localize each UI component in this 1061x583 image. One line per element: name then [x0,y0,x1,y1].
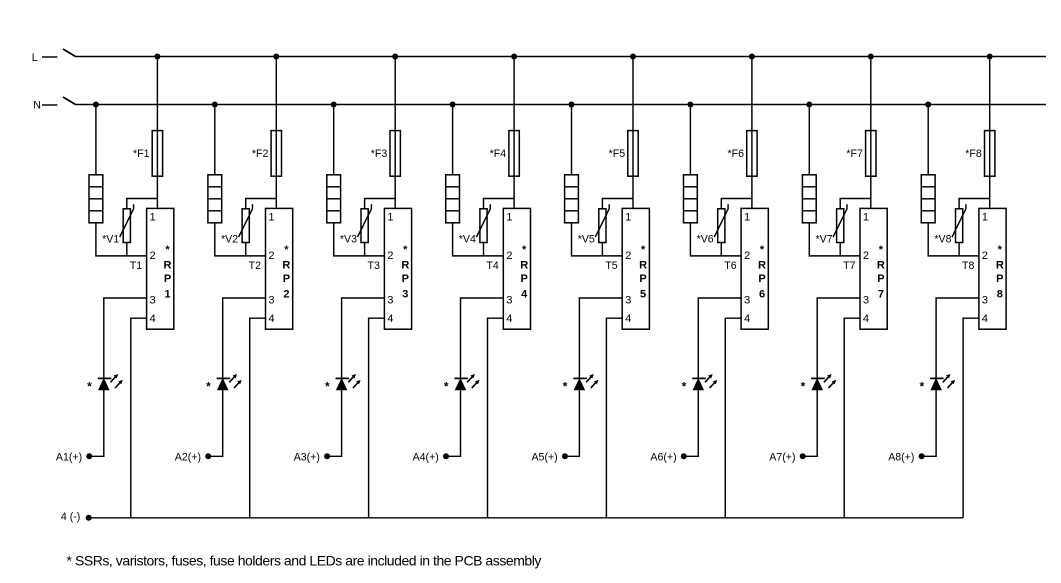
svg-text:*V5: *V5 [578,233,595,245]
fuse F7 [866,131,876,177]
fuse F6 [747,131,757,177]
svg-text:2: 2 [268,250,274,262]
svg-text:8: 8 [997,289,1003,301]
wire N to fuse holder T6 [689,105,691,175]
LED D2 light arrows [229,374,241,388]
svg-text:*F7: *F7 [846,148,863,160]
svg-text:P: P [996,273,1003,285]
svg-text:T6: T6 [724,260,736,272]
svg-text:*: * [444,380,449,394]
LED D1 light arrows [111,374,123,388]
svg-text:1: 1 [387,211,393,223]
wire LED D7 to terminal A7(+) [803,390,818,457]
junction N-T6 node [687,102,693,108]
svg-text:2: 2 [150,250,156,262]
wire holder T2 to SSR RP2 pin 2 [215,223,266,256]
svg-text:*: * [879,244,884,256]
svg-text:*F1: *F1 [133,148,150,160]
fuse F2 [271,131,281,177]
svg-text:*: * [165,244,170,256]
label *RP6 (vertical) [758,244,766,300]
wire varistor V1 top to fuse output [127,199,158,209]
wire varistor V4 bottom to pin 2 net [483,243,485,256]
fuse holder / terminal block T7 [802,175,816,223]
svg-text:1: 1 [506,211,512,223]
svg-text:P: P [521,273,528,285]
svg-text:*: * [998,244,1003,256]
svg-text:3: 3 [863,294,869,306]
wire varistor V5 bottom to pin 2 net [601,243,603,256]
svg-text:T4: T4 [486,260,498,272]
varistor V5 [595,204,609,242]
switch SW-N blade [63,97,76,105]
op-amp/SSR RP8 body [979,208,1006,329]
svg-text:4: 4 [982,313,988,325]
svg-text:*: * [403,244,408,256]
junction L-F7 node [868,54,874,60]
varistor V7 [833,204,847,242]
svg-text:*: * [325,380,330,394]
fuse holder / terminal block T6 [684,175,698,223]
svg-text:2: 2 [744,250,750,262]
svg-text:*: * [522,244,527,256]
LED D8 [930,378,944,389]
varistor V3 [358,204,372,242]
wire holder T4 to SSR RP4 pin 2 [453,223,504,256]
svg-text:*F2: *F2 [252,148,269,160]
svg-text:A8(+): A8(+) [888,451,914,463]
wire N to fuse holder T7 [808,105,810,175]
wire SSR RP4 pin 4 to 4(-) bus [488,318,504,518]
svg-text:R: R [877,259,885,271]
wire LED D4 to terminal A4(+) [446,390,461,457]
svg-text:A3(+): A3(+) [294,451,320,463]
wire SSR RP7 pin 4 to 4(-) bus [844,318,860,518]
wire LED D5 to terminal A5(+) [565,390,580,457]
varistor V8 [952,204,966,242]
wire SSR RP4 pin 3 to LED D4 [461,298,504,378]
wire N to fuse holder T5 [571,105,573,175]
svg-text:2: 2 [982,250,988,262]
junction N-T8 node [925,102,931,108]
wire holder T3 to SSR RP3 pin 2 [334,223,385,256]
wire varistor V7 top to fuse output [840,199,871,209]
svg-text:6: 6 [759,289,765,301]
svg-text:3: 3 [506,294,512,306]
wire varistor V8 bottom to pin 2 net [958,243,960,256]
svg-text:*: * [682,380,687,394]
wire holder T7 to SSR RP7 pin 2 [809,223,860,256]
svg-text:*V4: *V4 [459,233,476,245]
op-amp/SSR RP4 body [503,208,530,329]
svg-text:*F6: *F6 [728,148,745,160]
LED D5 [573,378,587,389]
wire SSR RP3 pin 4 to 4(-) bus [369,318,385,518]
svg-text:4: 4 [506,313,512,325]
wire LED D2 to terminal A2(+) [208,390,223,457]
terminal A2(+) node [205,453,211,459]
fuse holder / terminal block T5 [565,175,579,223]
svg-text:1: 1 [982,211,988,223]
svg-text:2: 2 [283,289,289,301]
svg-text:4 (-): 4 (-) [61,511,80,523]
svg-text:1: 1 [863,211,869,223]
svg-text:1: 1 [268,211,274,223]
wire holder T5 to SSR RP5 pin 2 [572,223,623,256]
svg-text:*F4: *F4 [490,148,507,160]
fuse F4 [509,131,519,177]
wire holder T6 to SSR RP6 pin 2 [690,223,741,256]
wire L to SSR RP7 pin 1 (through fuse F7) [870,57,872,209]
junction N-T7 node [806,102,812,108]
wire SSR RP8 pin 4 to 4(-) bus [963,318,979,518]
wire varistor V3 bottom to pin 2 net [364,243,366,256]
op-amp/SSR RP3 body [384,208,411,329]
svg-text:1: 1 [150,211,156,223]
svg-text:5: 5 [640,289,646,301]
wire L feed stub [42,56,57,58]
junction N-T3 node [331,102,337,108]
wire varistor V5 top to fuse output [602,199,633,209]
junction L-F1 node [154,54,160,60]
terminal A8(+) node [919,453,925,459]
svg-text:R: R [996,259,1004,271]
junction L-F4 node [511,54,517,60]
label *RP5 (vertical) [639,244,647,300]
junction N-T4 node [450,102,456,108]
svg-text:T5: T5 [605,260,617,272]
svg-text:A1(+): A1(+) [56,451,82,463]
4(-) common bus wire [89,517,963,519]
svg-text:*V6: *V6 [697,233,714,245]
wire SSR RP1 pin 4 to 4(-) bus [131,318,147,518]
LED D1 [98,378,112,389]
wire LED D3 to terminal A3(+) [327,390,342,457]
wire L to SSR RP2 pin 1 (through fuse F2) [275,57,277,209]
svg-text:P: P [639,273,646,285]
terminal A5(+) node [562,453,568,459]
svg-text:T7: T7 [843,260,855,272]
svg-text:T2: T2 [249,260,261,272]
op-amp/SSR RP6 body [741,208,768,329]
LED D4 [454,378,468,389]
svg-text:T8: T8 [962,260,974,272]
label *RP2 (vertical) [282,244,290,300]
svg-text:4: 4 [150,313,156,325]
svg-text:P: P [758,273,765,285]
svg-text:*: * [801,380,806,394]
svg-text:*: * [87,380,92,394]
junction N-T5 node [569,102,575,108]
svg-text:*V8: *V8 [934,233,951,245]
svg-text:R: R [401,259,409,271]
wire varistor V8 top to fuse output [959,199,990,209]
varistor V1 [120,204,134,242]
fuse holder / terminal block T8 [921,175,935,223]
wire L to SSR RP5 pin 1 (through fuse F5) [632,57,634,209]
LED D2 [217,378,231,389]
svg-text:*: * [563,380,568,394]
svg-text:3: 3 [625,294,631,306]
svg-text:3: 3 [402,289,408,301]
varistor V4 [476,204,490,242]
svg-text:2: 2 [506,250,512,262]
LED D5 light arrows [586,374,598,388]
svg-text:*V7: *V7 [816,233,833,245]
terminal A6(+) node [681,453,687,459]
op-amp/SSR RP5 body [622,208,649,329]
label *RP7 (vertical) [877,244,885,300]
wire L to SSR RP1 pin 1 (through fuse F1) [156,57,158,209]
svg-text:T3: T3 [368,260,380,272]
switch SW-L blade [63,49,76,57]
fuse holder / terminal block T2 [208,175,222,223]
svg-text:*V1: *V1 [102,233,119,245]
L rail [76,56,1047,58]
svg-text:R: R [164,259,172,271]
svg-text:R: R [758,259,766,271]
junction L-F3 node [392,54,398,60]
wire SSR RP8 pin 3 to LED D8 [936,298,979,378]
fuse F1 [152,131,162,177]
svg-text:A7(+): A7(+) [769,451,795,463]
wire SSR RP5 pin 4 to 4(-) bus [606,318,622,518]
terminal A1(+) node [86,453,92,459]
svg-text:2: 2 [625,250,631,262]
svg-text:*F5: *F5 [609,148,626,160]
label *RP4 (vertical) [520,244,528,300]
svg-text:*F8: *F8 [965,148,982,160]
N rail [76,104,1047,106]
svg-text:4: 4 [625,313,631,325]
wire N to fuse holder T3 [333,105,335,175]
svg-text:A6(+): A6(+) [650,451,676,463]
wire varistor V1 bottom to pin 2 net [126,243,128,256]
svg-text:A5(+): A5(+) [531,451,557,463]
fuse F8 [985,131,995,177]
wire SSR RP2 pin 4 to 4(-) bus [250,318,266,518]
label *RP1 (vertical) [164,244,172,300]
svg-text:4: 4 [268,313,274,325]
LED D7 [811,378,825,389]
svg-text:*V3: *V3 [340,233,357,245]
LED D4 light arrows [467,374,479,388]
svg-text:2: 2 [863,250,869,262]
svg-text:N: N [33,100,41,112]
fuse F5 [628,131,638,177]
svg-text:3: 3 [982,294,988,306]
svg-text:P: P [877,273,884,285]
wire N to fuse holder T1 [95,105,97,175]
svg-text:4: 4 [387,313,393,325]
wire SSR RP1 pin 3 to LED D1 [104,298,147,378]
svg-text:T1: T1 [130,260,142,272]
svg-text:4: 4 [863,313,869,325]
svg-text:1: 1 [625,211,631,223]
LED D8 light arrows [943,374,955,388]
svg-text:2: 2 [387,250,393,262]
svg-text:*: * [284,244,289,256]
wire LED D1 to terminal A1(+) [89,390,104,457]
wire L to SSR RP3 pin 1 (through fuse F3) [394,57,396,209]
wire holder T1 to SSR RP1 pin 2 [96,223,147,256]
svg-text:3: 3 [744,294,750,306]
wire SSR RP6 pin 4 to 4(-) bus [725,318,741,518]
svg-text:3: 3 [387,294,393,306]
junction L-F8 node [987,54,993,60]
terminal A3(+) node [324,453,330,459]
svg-text:1: 1 [744,211,750,223]
svg-text:R: R [282,259,290,271]
wire varistor V6 top to fuse output [721,199,752,209]
svg-text:A2(+): A2(+) [175,451,201,463]
varistor V6 [714,204,728,242]
LED D3 [336,378,350,389]
fuse holder / terminal block T1 [89,175,103,223]
wire varistor V7 bottom to pin 2 net [839,243,841,256]
svg-text:*F3: *F3 [371,148,388,160]
svg-text:L: L [32,52,38,64]
terminal 4(-) node [86,515,92,521]
LED D3 light arrows [348,374,360,388]
junction N-T1 node [93,102,99,108]
terminal A7(+) node [800,453,806,459]
wire LED D8 to terminal A8(+) [922,390,937,457]
fuse holder / terminal block T3 [327,175,341,223]
fuse holder / terminal block T4 [446,175,460,223]
svg-text:*V2: *V2 [221,233,238,245]
wire varistor V2 top to fuse output [246,199,277,209]
svg-text:P: P [402,273,409,285]
wire holder T8 to SSR RP8 pin 2 [928,223,979,256]
op-amp/SSR RP2 body [266,208,293,329]
svg-text:4: 4 [521,289,528,301]
svg-text:1: 1 [164,289,170,301]
wire SSR RP5 pin 3 to LED D5 [579,298,622,378]
svg-text:P: P [283,273,290,285]
wire varistor V3 top to fuse output [365,199,396,209]
label *RP8 (vertical) [996,244,1004,300]
wire SSR RP6 pin 3 to LED D6 [698,298,741,378]
wire SSR RP3 pin 3 to LED D3 [342,298,385,378]
svg-text:P: P [164,273,171,285]
svg-text:* SSRs, varistors, fuses, fuse: * SSRs, varistors, fuses, fuse holders a… [67,552,542,568]
junction N-T2 node [212,102,218,108]
wire L to SSR RP4 pin 1 (through fuse F4) [513,57,515,209]
terminal A4(+) node [443,453,449,459]
wire SSR RP7 pin 3 to LED D7 [817,298,860,378]
svg-text:*: * [919,380,924,394]
op-amp/SSR RP1 body [147,208,174,329]
wire N to fuse holder T2 [214,105,216,175]
wire L to SSR RP8 pin 1 (through fuse F8) [989,57,991,209]
junction L-F6 node [749,54,755,60]
op-amp/SSR RP7 body [860,208,887,329]
wire varistor V6 bottom to pin 2 net [720,243,722,256]
wire SSR RP2 pin 3 to LED D2 [223,298,266,378]
wire N to fuse holder T8 [927,105,929,175]
wire N feed stub [42,104,57,106]
svg-text:3: 3 [268,294,274,306]
wire varistor V2 bottom to pin 2 net [245,243,247,256]
wire L to SSR RP6 pin 1 (through fuse F6) [751,57,753,209]
LED D7 light arrows [824,374,836,388]
LED D6 light arrows [705,374,717,388]
wire varistor V4 top to fuse output [484,199,515,209]
svg-text:*: * [206,380,211,394]
svg-text:4: 4 [744,313,750,325]
label *RP3 (vertical) [401,244,409,300]
svg-text:A4(+): A4(+) [413,451,439,463]
junction L-F5 node [630,54,636,60]
svg-text:7: 7 [878,289,884,301]
svg-text:R: R [520,259,528,271]
wire LED D6 to terminal A6(+) [684,390,699,457]
varistor V2 [239,204,253,242]
fuse F3 [390,131,400,177]
junction L-F2 node [273,54,279,60]
svg-text:*: * [760,244,765,256]
svg-text:R: R [639,259,647,271]
svg-text:3: 3 [150,294,156,306]
svg-text:*: * [641,244,646,256]
wire N to fuse holder T4 [452,105,454,175]
LED D6 [692,378,706,389]
